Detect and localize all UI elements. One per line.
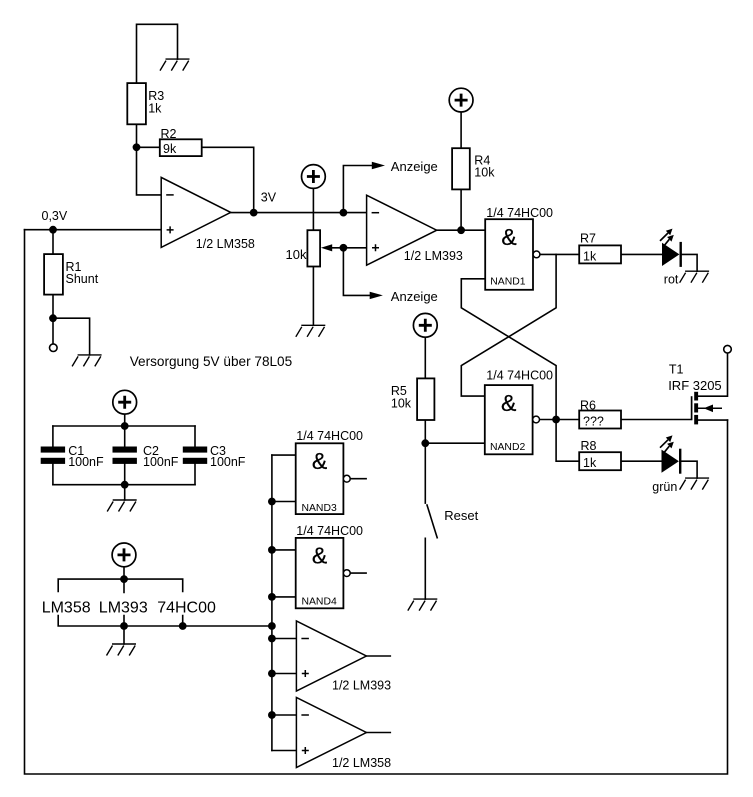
resistor R6 — [579, 411, 621, 429]
wire measurement loop border left bottom right — [25, 230, 728, 774]
junction node supply bracket bottom right — [179, 622, 187, 630]
svg-text:&: & — [312, 448, 327, 474]
label R2 — [161, 127, 177, 141]
junction node capacitor top rail — [121, 422, 129, 430]
junction node capacitor bottom rail — [121, 481, 129, 489]
svg-text:R6: R6 — [580, 398, 596, 412]
ground top (R3) — [160, 59, 190, 71]
LED rot light arrows — [660, 229, 674, 246]
NAND gate NAND2 — [485, 385, 540, 454]
svg-text:Anzeige: Anzeige — [391, 159, 438, 174]
capacitor C3 — [183, 447, 207, 464]
wire R4 bottom to NAND1 input line — [460, 189, 462, 230]
label NAND2 type — [486, 369, 553, 383]
label op-amp U1b — [332, 756, 391, 770]
wire LM393 output to NAND1 input 1 — [437, 229, 486, 231]
label T1 — [669, 363, 684, 377]
wire R3 bottom to node — [136, 124, 138, 147]
junction node R5 Reset — [421, 439, 429, 447]
wire T1 drain to terminal — [698, 353, 728, 396]
svg-text:T1: T1 — [669, 363, 684, 377]
junction node LM358b inverting — [268, 711, 276, 719]
wire NAND3 input 2 — [272, 501, 296, 503]
junction node supply bracket top — [120, 575, 128, 583]
svg-text:1/4 74HC00: 1/4 74HC00 — [486, 369, 553, 383]
wire NAND1 input 2 cross coupling from NAND2 output — [461, 279, 556, 420]
wire NAND input rail vertical — [271, 455, 273, 750]
label supply 74HC00 — [157, 599, 216, 616]
wire capacitor rail to ground — [124, 485, 126, 500]
open terminal below R1 — [50, 344, 58, 352]
wire R5 bottom to node — [424, 420, 426, 443]
junction node supply bracket bottom middle — [120, 622, 128, 630]
wire node to R8 — [556, 420, 579, 462]
wire capacitor power drop — [124, 414, 126, 447]
label C1 value — [68, 444, 104, 469]
svg-text:1/2 LM393: 1/2 LM393 — [404, 249, 463, 263]
wire LM358 output 3V line to LM393 inverting input — [231, 212, 367, 214]
junction node NAND4 input 1 — [268, 546, 276, 554]
op-amp U2b LM393 spare — [296, 621, 366, 691]
wire R8 to LED gruen — [621, 460, 662, 462]
svg-text:Shunt: Shunt — [66, 272, 99, 286]
wire power to supply bracket — [123, 566, 125, 579]
svg-text:1/4 74HC00: 1/4 74HC00 — [296, 429, 363, 443]
junction node LM358 output 3V — [250, 209, 258, 217]
ground capacitor block — [107, 500, 137, 512]
svg-text:1/2 LM358: 1/2 LM358 — [332, 756, 391, 770]
label NAND3 type — [296, 429, 363, 443]
svg-text:1k: 1k — [148, 101, 162, 115]
ground below potentiometer — [296, 325, 326, 337]
wire NAND4 input 2 — [272, 596, 296, 598]
wire T1 source to right border — [698, 419, 728, 421]
junction node NAND3 input 2 — [268, 498, 276, 506]
transistor T1 IRF3205 MOSFET — [692, 392, 722, 425]
ground supply bracket — [107, 644, 137, 656]
wire LED gruen cathode to ground — [680, 461, 697, 478]
svg-text:grün: grün — [652, 480, 677, 494]
svg-text:&: & — [312, 543, 327, 569]
wire wiper to LM393 non-inverting input — [332, 247, 367, 249]
svg-text:9k: 9k — [163, 142, 177, 156]
label op-amp U1a — [196, 237, 255, 251]
label op-amp U2b — [332, 678, 391, 692]
svg-text:Reset: Reset — [444, 508, 478, 523]
ground below R1 — [72, 355, 102, 367]
junction node Anzeige upper branch — [340, 209, 348, 217]
label Anzeige upper — [391, 159, 438, 174]
svg-text:1/2 LM358: 1/2 LM358 — [196, 237, 255, 251]
label gruen — [652, 480, 677, 494]
svg-text:LM358: LM358 — [42, 599, 91, 616]
label supply LM393 — [99, 599, 148, 616]
wire power to R5 — [424, 337, 426, 379]
junction node NAND4 input 2 — [268, 593, 276, 601]
wire NAND4 input 1 — [272, 549, 296, 551]
svg-text:???: ??? — [583, 415, 604, 429]
arrowhead Anzeige lower — [370, 292, 383, 299]
svg-text:R7: R7 — [580, 232, 596, 246]
wire LM358b output stub — [366, 732, 390, 734]
label R8 — [581, 439, 597, 453]
wire supply bracket top — [58, 579, 183, 592]
open terminal T1 drain — [724, 345, 732, 353]
wire R7 to LED rot — [621, 253, 662, 255]
label NAND4 type — [296, 524, 363, 538]
label Reset — [444, 508, 478, 523]
label C3 value — [210, 444, 246, 469]
LED rot diode — [662, 242, 681, 267]
label R4 value — [474, 153, 495, 179]
wire Reset switch lower to ground — [424, 538, 426, 599]
junction node 0,3V — [49, 226, 57, 234]
svg-text:1/4 74HC00: 1/4 74HC00 — [486, 206, 553, 220]
svg-text:1/4 74HC00: 1/4 74HC00 — [296, 524, 363, 538]
junction node rail bracket — [268, 622, 276, 630]
wire NAND2 output to R6 — [540, 419, 580, 421]
resistor R5 — [417, 378, 434, 420]
power symbol +5V above R4 — [449, 88, 473, 112]
wire Anzeige upper branch — [343, 166, 371, 213]
junction node R1 bottom — [49, 314, 57, 322]
svg-text:0,3V: 0,3V — [42, 209, 68, 223]
label T1 type IRF 3205 — [668, 378, 721, 393]
resistor R7 — [579, 245, 621, 263]
wire potentiometer bottom to ground — [312, 267, 314, 326]
label Anzeige lower — [391, 289, 438, 304]
junction node Anzeige lower branch — [340, 244, 348, 252]
wire supply bracket bottom to NAND rail — [58, 616, 272, 627]
wire LM393b non-inverting input — [272, 673, 297, 675]
op-amp U1a LM358 — [161, 177, 231, 247]
ground Reset switch — [408, 599, 438, 611]
wire R3 top to ground — [137, 24, 178, 83]
wire R1 node to ground — [53, 318, 90, 355]
power symbol +5V capacitor block — [113, 390, 137, 414]
wire NAND4 output stub — [350, 572, 366, 574]
arrowhead Anzeige upper — [372, 162, 385, 169]
svg-text:1k: 1k — [583, 456, 597, 470]
capacitor C2 — [113, 447, 137, 464]
svg-text:Versorgung 5V über 78L05: Versorgung 5V über 78L05 — [130, 354, 293, 369]
svg-text:1k: 1k — [583, 249, 597, 263]
svg-text:NAND3: NAND3 — [302, 503, 337, 514]
wire NAND1 output cross coupling to NAND2 input 1 — [461, 254, 556, 396]
svg-text:NAND1: NAND1 — [490, 277, 525, 288]
svg-text:&: & — [501, 224, 516, 250]
NAND gate NAND4 — [296, 538, 350, 608]
wire power to potentiometer top — [312, 188, 314, 230]
value R2 9k — [163, 142, 177, 156]
note Versorgung — [130, 354, 293, 369]
svg-text:R2: R2 — [161, 127, 177, 141]
wire node 0,3V down to R1 — [52, 230, 54, 254]
wire LED rot cathode to ground — [681, 254, 698, 271]
label node 3V — [261, 190, 277, 204]
svg-text:3V: 3V — [261, 190, 277, 204]
wire C2 bottom drop — [124, 464, 126, 485]
svg-text:100nF: 100nF — [68, 455, 104, 469]
junction node LM393b inverting — [268, 635, 276, 643]
value potentiometer 10k — [286, 247, 307, 262]
resistor R3 — [127, 83, 146, 124]
wire node to LM358 inverting input — [137, 147, 162, 195]
label C2 value — [143, 444, 179, 469]
wire power to R4 — [460, 112, 462, 149]
wire R2 left — [137, 146, 160, 148]
switch Reset blade — [427, 505, 437, 538]
NAND gate NAND1 — [485, 219, 540, 290]
svg-text:10k: 10k — [391, 397, 412, 411]
wire R2 right feedback to output — [202, 147, 254, 212]
capacitor C1 — [41, 447, 65, 464]
wire capacitor top rail — [53, 425, 195, 427]
junction node R3 R2 — [133, 143, 141, 151]
wire capacitor bottom rail — [53, 484, 195, 486]
wire C3 drops — [194, 426, 196, 485]
resistor R4 — [452, 148, 470, 189]
svg-text:100nF: 100nF — [210, 455, 246, 469]
power symbol +5V supply bracket — [112, 543, 136, 567]
svg-text:NAND2: NAND2 — [490, 442, 525, 453]
junction node NAND2 output — [552, 416, 560, 424]
wiper arrowhead — [321, 244, 332, 251]
ground LED rot — [680, 271, 710, 283]
junction node LM393b non-inverting — [268, 670, 276, 678]
value R6 ??? — [583, 415, 604, 429]
LED gruen light arrows — [660, 435, 674, 452]
resistor R2 — [160, 139, 202, 156]
label supply LM358 — [42, 599, 91, 616]
potentiometer 10k body — [307, 230, 320, 266]
svg-text:IRF 3205: IRF 3205 — [668, 378, 721, 393]
label R6 — [580, 398, 596, 412]
label R7 — [580, 232, 596, 246]
wire LM393b inverting input — [272, 638, 297, 640]
resistor R8 — [579, 452, 621, 470]
junction node R4 NAND1 input — [457, 226, 465, 234]
svg-text:Anzeige: Anzeige — [391, 289, 438, 304]
power symbol +5V above R5 — [413, 313, 437, 337]
label node 0,3V — [42, 209, 68, 223]
op-amp U1b LM358 spare — [296, 698, 366, 768]
value R7 1k — [583, 249, 597, 263]
wire Reset switch upper — [424, 443, 426, 503]
wire C1 drops — [52, 426, 54, 485]
wire R6 to T1 gate — [621, 419, 692, 421]
LED gruen diode — [662, 449, 681, 474]
svg-text:10k: 10k — [286, 247, 307, 262]
label rot — [664, 273, 679, 287]
wire node to NAND2 input 2 — [425, 442, 485, 444]
svg-text:NAND4: NAND4 — [302, 596, 337, 607]
label R1 Shunt — [66, 260, 99, 286]
value R8 1k — [583, 456, 597, 470]
NAND gate NAND3 — [296, 443, 350, 514]
svg-text:rot: rot — [664, 273, 679, 287]
wire LM393b output stub — [366, 655, 390, 657]
svg-text:R8: R8 — [581, 439, 597, 453]
resistor R1 — [44, 254, 63, 295]
label R3 value — [148, 89, 164, 116]
wire LM358b inverting input — [272, 714, 297, 716]
wire 0,3V rail to LM358 non-inverting input — [25, 229, 162, 231]
svg-text:1/2 LM393: 1/2 LM393 — [332, 678, 391, 692]
svg-text:10k: 10k — [474, 166, 495, 180]
label R5 value — [391, 384, 412, 411]
svg-text:LM393: LM393 — [99, 599, 148, 616]
power symbol +5V above potentiometer — [302, 165, 326, 189]
wire R1 bottom to terminal — [52, 295, 54, 344]
svg-text:100nF: 100nF — [143, 455, 179, 469]
svg-text:74HC00: 74HC00 — [157, 599, 216, 616]
svg-text:&: & — [501, 390, 516, 416]
ground LED gruen — [680, 478, 710, 490]
wire NAND1 output to R7 — [540, 253, 579, 255]
label NAND1 type — [486, 206, 553, 220]
wire NAND3 input 1 — [272, 454, 296, 456]
label op-amp U2a — [404, 249, 463, 263]
op-amp U2a LM393 — [367, 195, 437, 265]
wire LM358b non-inverting input — [272, 750, 297, 752]
wire supply bracket to ground — [123, 626, 125, 644]
wire NAND3 output stub — [350, 478, 366, 480]
wire Anzeige lower branch — [343, 248, 369, 296]
